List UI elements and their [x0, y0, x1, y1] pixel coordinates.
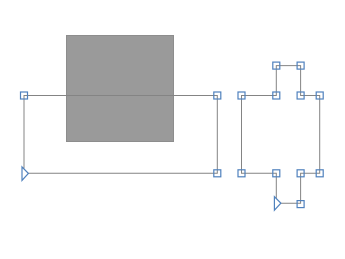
left shape start-marker triangle [22, 167, 28, 181]
cross handle bottom-inner-right [297, 170, 304, 177]
left shape handle top-left [21, 92, 28, 99]
cross handle bottom-far-right [316, 170, 323, 177]
cross handle shoulder-far-right [316, 92, 323, 99]
cross handle shoulder-far-left [238, 92, 245, 99]
cross handle top-tab-left [273, 62, 280, 69]
cross handle top-tab-right [297, 62, 304, 69]
cross handle bottom-inner-left [273, 170, 280, 177]
left shape handle bottom-right [214, 170, 221, 177]
left shape handle top-right [214, 92, 221, 99]
cross handle shoulder-inner-right [297, 92, 304, 99]
gray filled rectangle [67, 36, 174, 142]
cross start-marker triangle [274, 197, 281, 211]
cross handle bottom-tab-right [297, 201, 304, 208]
cross handle shoulder-inner-left [273, 92, 280, 99]
cross handle bottom-far-left [238, 170, 245, 177]
right cross polygon [242, 66, 320, 204]
left rectangle polyline [24, 96, 217, 174]
